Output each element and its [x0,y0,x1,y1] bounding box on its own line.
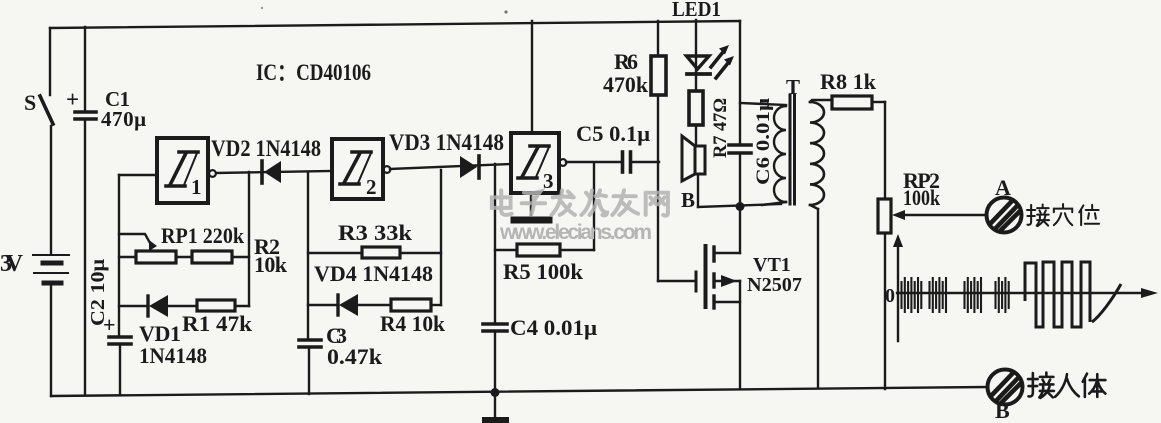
svg-text:C4 0.01μ: C4 0.01μ [510,315,598,340]
label jie-ren-ti (connect human body) [1028,373,1105,398]
capacitor C6 column [729,21,751,206]
label jie-xue-wei (connect acupoint) [1027,204,1099,226]
svg-text:R7 47Ω: R7 47Ω [710,98,731,158]
ground [482,388,509,423]
wire gate1 input [119,174,157,176]
wire gate2 feedback vertical [440,170,442,305]
svg-text:B: B [995,398,1010,423]
svg-text:10k: 10k [254,252,288,277]
resistor R6 [651,21,666,281]
wire gate1 feedback vertical [248,172,250,306]
resistor R8 [832,96,885,199]
diode VD3 [460,156,479,178]
wire VT1 gate lead [658,280,694,282]
svg-text:IC：CD40106: IC：CD40106 [256,60,371,85]
LED LED1 [687,20,735,91]
svg-text:470μ: 470μ [101,107,146,131]
watermark 电子发烧友网 [492,190,668,215]
transformer T primary [740,103,786,205]
wire left rail upper (to switch) [49,28,51,95]
capacitor C3 [299,338,321,342]
diode VD4 [308,294,391,316]
wire top rail [50,21,740,28]
svg-text:R6: R6 [614,49,638,74]
svg-text:C6 0.01μ: C6 0.01μ [753,98,774,185]
svg-text:R3 33k: R3 33k [338,220,413,245]
burst group 1 [902,277,922,313]
resistor R3 [308,247,441,258]
capacitor C2 [109,335,131,339]
svg-text:3V: 3V [0,251,24,277]
gate 3 Schmitt inverter (CD40106) [511,133,566,193]
svg-text:VD2 1N4148: VD2 1N4148 [211,136,321,161]
svg-text:T: T [786,75,800,99]
svg-text:100k: 100k [903,185,941,210]
node gate1 input column [109,175,131,394]
battery 3V [33,255,69,283]
wire gate2 output [390,164,511,169]
svg-text:R1 47k: R1 47k [182,311,253,336]
svg-text:R4 10k: R4 10k [380,311,446,336]
terminal A [987,198,1022,233]
resistor R2 [192,251,249,263]
wire drain node horizontal [698,204,781,207]
svg-text:2: 2 [366,175,377,199]
svg-text:R5 100k: R5 100k [503,259,584,284]
capacitor C4 [483,322,507,326]
transformer T core [790,95,795,204]
svg-text:www.elecians.com: www.elecians.com [499,221,652,244]
svg-text:VT1: VT1 [753,254,791,276]
resistor R7 [689,91,703,146]
capacitor C5 [623,152,660,172]
wire terminal A to RP2 wiper [892,210,985,220]
wire bottom rail [51,387,986,396]
capacitor C1 [75,27,96,395]
terminal B [988,370,1023,405]
svg-text:+: + [66,87,79,112]
switch S [40,96,53,124]
resistor R5 [495,163,594,256]
svg-text:A: A [995,175,1011,200]
potentiometer RP1 [119,240,192,263]
wire left rail lower [50,285,52,396]
svg-text:B: B [681,188,695,212]
resistor R4 [391,299,441,311]
svg-text:R8 1k: R8 1k [820,69,877,94]
scan dot noise [504,10,507,13]
wire gate3 output [566,161,621,163]
wire gate3 power stub [531,21,533,133]
node junction dot [736,202,745,211]
gate 2 Schmitt inverter (CD40106) [332,139,390,199]
svg-text:+: + [103,312,116,337]
burst group 4 [996,277,1009,313]
node gate3 input column [483,164,507,392]
transformer T secondary [810,100,832,388]
svg-text:S: S [24,90,36,115]
svg-text:VD4 1N4148: VD4 1N4148 [314,261,433,286]
svg-text:N2507: N2507 [747,274,802,296]
svg-text:LED1: LED1 [672,0,721,21]
svg-text:C5 0.1μ: C5 0.1μ [576,121,651,146]
svg-text:0.47k: 0.47k [327,344,383,369]
svg-text:1N4148: 1N4148 [139,343,207,368]
resistor R1 [197,300,249,311]
diode VD2 [262,161,281,183]
square pulse train [1025,262,1090,327]
svg-text:1: 1 [191,175,202,199]
svg-text:VD3 1N4148: VD3 1N4148 [389,130,504,155]
gate 1 Schmitt inverter (CD40106) [157,138,216,203]
transistor VT1 N2507 MOSFET [696,207,740,389]
node gate2 input column [299,172,321,394]
burst group 2 [930,277,947,313]
wire RP1 wiper [119,234,150,243]
electrode stub below gate3 [514,193,549,220]
speaker B [682,136,705,207]
ramp stroke [1092,284,1121,322]
wire gate1 output [216,171,332,173]
waveform pulse bursts [902,262,1122,327]
diode VD1 [119,295,197,317]
svg-text:470k: 470k [603,72,649,97]
svg-text:RP1 220k: RP1 220k [161,223,245,248]
potentiometer RP2 [878,199,891,389]
svg-text:0: 0 [885,285,895,307]
burst group 3 [965,277,982,313]
waveform axes [893,234,1158,341]
